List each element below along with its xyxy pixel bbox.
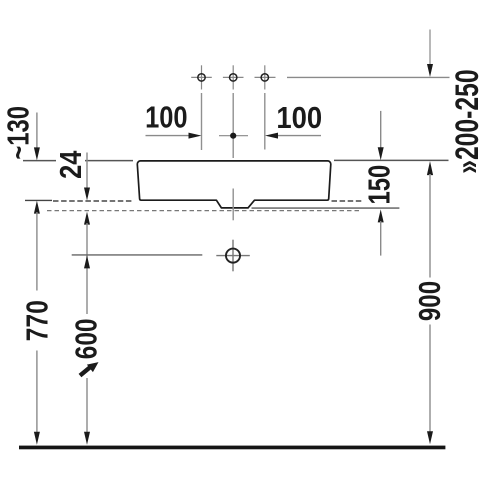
dimension line 100 left xyxy=(146,133,202,139)
extension line below circle 1 xyxy=(201,93,203,150)
single hole dot xyxy=(230,133,236,139)
counter top dashed line (left of basin) xyxy=(53,200,134,202)
svg-text:900: 900 xyxy=(412,281,446,321)
rim level line right xyxy=(334,159,449,161)
dimension line 150 (upper segment with down arrow) xyxy=(378,111,384,160)
svg-text:24: 24 xyxy=(54,150,89,178)
dimension line 200-250 (upper segment with down arrow) xyxy=(427,30,433,78)
faucet hole circle 3 crosshair xyxy=(255,65,276,89)
drain level line (150 bottom reference) xyxy=(252,207,400,209)
svg-text:100: 100 xyxy=(276,102,322,136)
counter underside dashed line xyxy=(47,210,362,212)
faucet hole circle 2 xyxy=(230,74,237,81)
drain center line (600 top reference) xyxy=(72,254,203,256)
centerline below circle 2 xyxy=(232,93,234,158)
svg-text:770: 770 xyxy=(20,300,54,341)
floor line xyxy=(19,446,445,450)
drain outlet circle crosshair xyxy=(216,240,250,272)
label 24 xyxy=(54,146,89,183)
dimension line 150 (lower segment with up arrow) xyxy=(378,209,384,255)
svg-text:600: 600 xyxy=(69,319,103,360)
dimension line ~130 (upper segment with down arrow) xyxy=(34,113,40,161)
dimension line 900 vertical xyxy=(427,161,433,444)
label 900 xyxy=(412,278,446,325)
counter top extension tick xyxy=(25,199,52,201)
dimension line ~130/770 shared vertical xyxy=(34,201,40,445)
faucet reference line (top, y=77.4) xyxy=(287,76,450,78)
dimension line 100 right xyxy=(265,133,321,139)
rim level line left xyxy=(23,160,133,162)
faucet hole circle 1 xyxy=(198,74,205,81)
faucet hole circle 2 crosshair xyxy=(223,65,244,89)
single hole dot crosshair xyxy=(219,135,248,137)
adjustable height arrow symbol xyxy=(80,362,99,376)
svg-text:»200-250: »200-250 xyxy=(450,69,480,173)
washbasin outline xyxy=(137,161,330,208)
label 150 xyxy=(362,164,397,204)
label 600 xyxy=(69,314,103,378)
basin centerline through drain notch xyxy=(232,189,234,221)
label 770 xyxy=(20,291,54,351)
drain outlet circle xyxy=(226,249,240,263)
faucet hole circle 1 crosshair xyxy=(191,65,212,89)
dimension line 24/600 shared vertical xyxy=(84,212,90,445)
extension line below circle 3 xyxy=(264,93,266,150)
faucet hole circle 3 xyxy=(261,74,268,81)
dimension line 24 (upper segment with down arrow) xyxy=(84,153,90,201)
counter top dashed line (right of basin) xyxy=(332,200,364,202)
svg-text:150: 150 xyxy=(362,165,397,205)
svg-text:100: 100 xyxy=(145,100,187,134)
svg-text:~130: ~130 xyxy=(1,106,36,160)
